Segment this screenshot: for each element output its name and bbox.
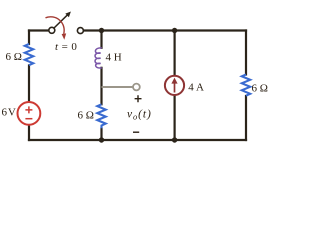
node junction dot bottom of current source branch	[172, 137, 177, 142]
wire left rail lower	[28, 125, 30, 140]
switch blade	[54, 12, 71, 29]
wire top rail right segment	[84, 29, 247, 31]
wire current-source branch upper	[174, 31, 176, 76]
svg-text:6 V: 6 V	[2, 106, 16, 118]
svg-text:6 Ω: 6 Ω	[252, 83, 268, 95]
resistor R right 6ohm	[242, 75, 250, 96]
wire left rail middle	[28, 66, 30, 103]
label + of vo	[135, 95, 142, 102]
wire left rail upper	[28, 31, 30, 45]
svg-text:4 A: 4 A	[188, 81, 204, 93]
switch open terminal left	[49, 27, 55, 33]
wire right rail upper	[245, 31, 247, 75]
output tap wire (gray)	[102, 86, 133, 88]
switch closing arrow (red arc)	[46, 17, 67, 40]
current source I1 4A	[165, 76, 184, 95]
output terminal (gray open circle)	[133, 84, 140, 91]
wire middle branch mid	[100, 68, 102, 105]
wire bottom rail	[29, 139, 246, 141]
wire middle branch lower	[100, 128, 102, 140]
switch open terminal right	[77, 28, 83, 34]
wire right rail lower	[245, 96, 247, 140]
svg-text:6 Ω: 6 Ω	[78, 110, 94, 122]
wire middle branch upper	[100, 31, 102, 48]
svg-text:t = 0: t = 0	[55, 41, 77, 53]
inductor L 4H	[95, 48, 102, 68]
label minus of vo	[133, 131, 139, 133]
resistor R left 6ohm	[25, 44, 33, 65]
node junction dot bottom of inductor branch	[99, 137, 104, 142]
svg-text:4 H: 4 H	[106, 51, 122, 63]
wire current-source branch lower	[174, 95, 176, 140]
wire top rail left segment	[29, 29, 49, 31]
svg-text:vo(t): vo(t)	[127, 108, 152, 121]
node junction dot top of current source branch	[172, 28, 177, 33]
svg-text:6 Ω: 6 Ω	[6, 51, 22, 63]
voltage source V1 6V	[18, 102, 41, 125]
resistor R middle 6ohm	[97, 104, 105, 128]
node junction dot top of inductor branch	[99, 28, 104, 33]
